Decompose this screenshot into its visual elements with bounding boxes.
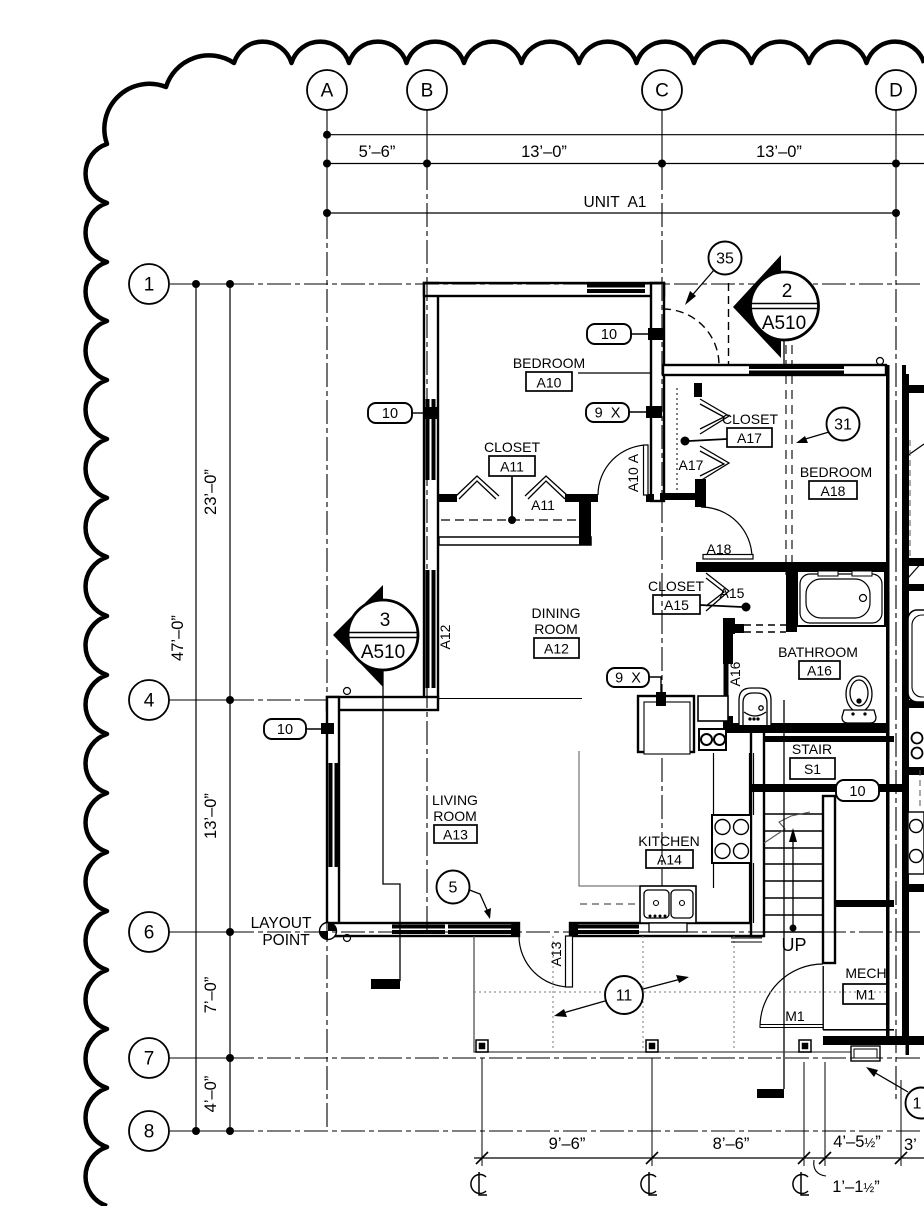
closet shelf lines [441, 388, 677, 520]
toilet A16 [842, 676, 876, 723]
svg-text:POINT: POINT [262, 932, 310, 949]
callout 31 [796, 408, 860, 444]
keynote 10 west living [264, 719, 306, 739]
wall: bathroom west upper [723, 633, 733, 664]
svg-text:MECH: MECH [845, 965, 886, 981]
window: kitchen south [575, 925, 639, 929]
party wall west line [886, 365, 890, 1036]
window: bedroom A10 west [426, 399, 430, 480]
wall: south exterior east of door A13 [570, 923, 763, 936]
svg-text:1: 1 [913, 1096, 922, 1113]
svg-text:2: 2 [782, 281, 793, 302]
svg-text:47’–0”: 47’–0” [169, 615, 187, 661]
closet A15 bifold door [706, 573, 729, 611]
wall: closet A17 north jamb [694, 383, 702, 397]
stair break line [764, 812, 810, 843]
wall: stair north [764, 736, 894, 742]
svg-text:9 X: 9 X [595, 406, 621, 422]
walls [320, 283, 910, 1098]
centerline symbol 1 [471, 1172, 487, 1195]
svg-text:A12: A12 [437, 624, 453, 649]
svg-text:23’–0”: 23’–0” [202, 469, 220, 515]
wall: south exterior west of door A13 [327, 923, 519, 936]
section 2 cut line solid [783, 700, 785, 1089]
svg-text:BEDROOM: BEDROOM [513, 355, 585, 371]
window: living west [329, 763, 333, 867]
patio column 3 [799, 1040, 811, 1052]
lavatory A16 [739, 688, 771, 725]
svg-text:A18: A18 [821, 483, 846, 499]
bottom dimension line [474, 1157, 924, 1159]
bubble 8 [129, 1111, 169, 1151]
room box A10 [526, 372, 572, 391]
svg-text:M1: M1 [785, 1008, 805, 1024]
svg-text:A11: A11 [531, 497, 555, 513]
closet A11 bifold doors [456, 399, 729, 611]
svg-text:1: 1 [144, 275, 155, 296]
wall: closet A15 east [786, 562, 797, 632]
callout 5 [437, 871, 492, 920]
svg-text:A510: A510 [762, 313, 806, 334]
svg-text:A10 A: A10 A [625, 453, 641, 492]
bubble 1 [129, 264, 169, 304]
keynotes [264, 324, 879, 801]
room box A14 [646, 850, 693, 868]
door A10A swing [598, 445, 648, 495]
room box A16 [799, 661, 840, 679]
bubble D [876, 70, 916, 110]
svg-text:10: 10 [601, 327, 617, 343]
svg-text:DINING: DINING [532, 605, 581, 621]
svg-text:ROOM: ROOM [433, 808, 477, 824]
bubble 7 [129, 1038, 169, 1078]
callout 11 [554, 975, 689, 1017]
svg-text:5: 5 [449, 880, 458, 897]
grid line D vertical [895, 110, 897, 215]
svg-text:1’–1½”: 1’–1½” [832, 1178, 880, 1196]
window: dining west [426, 570, 430, 688]
pantry cabinet [698, 696, 728, 721]
wall: north living room [327, 697, 438, 710]
patio column 2 [646, 1040, 658, 1052]
grid line 4 horizontal [169, 699, 230, 701]
small circle top wall [344, 688, 351, 695]
svg-text:A18: A18 [707, 541, 732, 557]
keynote 10 bedroom A10 [587, 324, 631, 344]
svg-text:C: C [655, 81, 669, 102]
wall: A17/A18 jamb [695, 479, 706, 507]
svg-text:S1: S1 [804, 761, 821, 777]
keynote 10 stair [836, 780, 879, 801]
grid lines [169, 110, 924, 1131]
windows [329, 284, 845, 935]
svg-text:8: 8 [144, 1122, 155, 1143]
leader A11 [511, 476, 513, 517]
svg-text:10: 10 [849, 784, 865, 800]
keynote 10 west bedroom [368, 403, 412, 423]
wall: west exterior bedroom/dining [424, 283, 438, 699]
svg-text:UNIT A1: UNIT A1 [584, 194, 647, 211]
wall: stair mid keynote10 [751, 784, 906, 792]
dimension dots top [323, 131, 900, 217]
wall: bathroom south [729, 723, 886, 733]
svg-text:M1: M1 [856, 987, 876, 1003]
mech vent [851, 1046, 880, 1061]
svg-text:A13: A13 [443, 827, 468, 843]
doors [519, 283, 823, 1028]
svg-text:5’–6”: 5’–6” [359, 143, 396, 161]
door A18 swing [701, 507, 752, 558]
leader A15 [700, 605, 742, 607]
refrigerator [638, 696, 694, 754]
bubble 6 [129, 912, 169, 952]
adjacent unit stove [908, 812, 924, 874]
callout 35 [685, 242, 742, 306]
closet A17 bifold doors [700, 399, 729, 434]
party wall east line [902, 365, 906, 1036]
wall: closet A11 east [579, 494, 591, 545]
svg-text:CLOSET: CLOSET [484, 439, 540, 455]
room box A17 [727, 428, 772, 447]
callouts [333, 242, 924, 1119]
grid line 1 horizontal [170, 283, 230, 285]
window: bedroom A18 north [749, 366, 844, 370]
left dimension line inner [229, 284, 231, 1131]
svg-text:A16: A16 [807, 663, 832, 679]
svg-text:13’–0”: 13’–0” [521, 143, 567, 161]
wall: bathroom west lower [723, 716, 733, 733]
grid line 8 horizontal [170, 1130, 230, 1132]
leader for 1'-1 1/2" [814, 1160, 826, 1176]
kitchen counter east edge [714, 753, 754, 923]
stair up arrow [792, 836, 794, 928]
door A13 jamb caps [511, 923, 519, 936]
section 3 cut line [383, 671, 400, 981]
bathtub A16 [797, 571, 885, 626]
svg-text:3: 3 [380, 610, 391, 631]
svg-text:A14: A14 [657, 852, 682, 868]
svg-text:A15: A15 [664, 597, 689, 613]
dashed closet A15 south opening [744, 625, 786, 632]
kitchen sink [640, 886, 696, 932]
wall: closet A11 east to A10 door [565, 494, 598, 502]
svg-text:A11: A11 [500, 459, 524, 475]
wall: closet A15 south west end [723, 618, 735, 634]
room box A13 [434, 825, 477, 843]
entry threshold lines [731, 937, 762, 939]
entry door dashed swing [663, 309, 719, 365]
dimensions [169, 131, 924, 1196]
section 2 cut line dashed [785, 345, 787, 575]
adjacent unit west wall [906, 374, 910, 1055]
wall: stair center [823, 796, 835, 963]
grid line B vertical [426, 110, 428, 166]
small circle A18 wall [877, 358, 884, 365]
wall: mech south [823, 1036, 909, 1045]
svg-text:A17: A17 [737, 430, 762, 446]
window: living south 1 [392, 925, 445, 929]
adjacent unit washer circles [912, 733, 923, 744]
svg-text:A16: A16 [727, 661, 743, 686]
grid line 7 horizontal [169, 1057, 230, 1059]
alcove edge line in A10 [578, 372, 651, 374]
svg-text:6: 6 [144, 923, 155, 944]
room box S1 [790, 758, 835, 779]
svg-text:10: 10 [382, 406, 398, 422]
callout 1x partial [866, 1067, 924, 1119]
layout point symbol [320, 923, 351, 942]
bottom extension lines [482, 1058, 901, 1166]
svg-text:A: A [321, 81, 334, 102]
svg-text:35: 35 [716, 251, 734, 268]
svg-text:LAYOUT: LAYOUT [251, 915, 312, 932]
patio outline [474, 936, 852, 1052]
door M1 swing [760, 964, 823, 1027]
cooktop range [712, 815, 751, 863]
centerline symbol 3 [793, 1172, 809, 1195]
stair treads [764, 814, 823, 932]
wall: west exterior living room [327, 697, 339, 936]
adjacent unit bathtub [908, 610, 924, 702]
svg-text:31: 31 [834, 417, 852, 434]
svg-text:A10: A10 [537, 375, 562, 391]
room box A15 [653, 595, 700, 614]
svg-text:ROOM: ROOM [534, 621, 578, 637]
grid line A vertical [326, 110, 328, 215]
bubble C [642, 70, 682, 110]
wall: mech north [835, 900, 894, 907]
svg-text:A12: A12 [544, 641, 569, 657]
window: living south 2 [448, 925, 516, 929]
svg-text:A13: A13 [548, 941, 564, 966]
svg-text:A17: A17 [679, 457, 704, 473]
dimension dots left [192, 280, 234, 1135]
kitchen floor edge [579, 751, 639, 886]
centerline symbol 2 [641, 1172, 657, 1195]
left dimension line outer [195, 284, 197, 1131]
top dimension line 3 UNIT A1 [327, 212, 896, 214]
room box A12 [534, 638, 579, 658]
svg-text:D: D [889, 81, 903, 102]
svg-text:4’–0”: 4’–0” [202, 1076, 220, 1113]
adjacent unit door diagonal [908, 560, 924, 578]
svg-text:9’–6”: 9’–6” [549, 1135, 586, 1153]
door A16 panel [724, 664, 729, 716]
laundry box two circles [699, 729, 726, 750]
fixtures [638, 374, 924, 1055]
svg-text:8’–6”: 8’–6” [713, 1135, 750, 1153]
window: bedroom A10 north [587, 284, 645, 288]
grid line C vertical [661, 110, 663, 166]
wall: closet A17 south [660, 493, 702, 500]
wall: closet A11 west jamb [439, 494, 457, 502]
section marker 3/A510 [333, 585, 418, 687]
room box M1 [843, 984, 887, 1004]
svg-text:10: 10 [277, 722, 293, 738]
svg-text:3’: 3’ [904, 1136, 917, 1154]
adjacent unit wall stubs [906, 385, 924, 1045]
svg-text:CLOSET: CLOSET [722, 411, 778, 427]
adjacent unit dashes [919, 770, 921, 808]
top dimension line 1 [327, 134, 924, 136]
svg-text:4’–5½”: 4’–5½” [833, 1133, 881, 1151]
keynote 9X kitchen [607, 668, 649, 687]
kitchen upper cabinet dashed [580, 903, 639, 905]
bubble 4 [129, 680, 169, 720]
svg-text:BATHROOM: BATHROOM [778, 644, 858, 660]
svg-text:B: B [421, 81, 434, 102]
svg-text:BEDROOM: BEDROOM [800, 464, 872, 480]
keynote 9X bedroom A10 [586, 403, 629, 422]
section marker 2/A510 [733, 255, 819, 367]
svg-text:A15: A15 [720, 585, 745, 601]
grid line 6 horizontal [169, 931, 230, 933]
svg-text:9 X: 9 X [615, 671, 641, 687]
svg-text:UP: UP [781, 935, 806, 955]
svg-text:11: 11 [616, 988, 633, 1005]
bubble B [407, 70, 447, 110]
bubble A [307, 70, 347, 110]
wall: east bedroom A10 [651, 283, 664, 501]
svg-text:CLOSET: CLOSET [648, 578, 704, 594]
wall: closet A11 south [439, 537, 591, 545]
wall: bedroom A18 south [696, 562, 886, 572]
svg-text:4: 4 [144, 691, 155, 712]
svg-text:LIVING: LIVING [432, 792, 478, 808]
svg-text:13’–0”: 13’–0” [756, 143, 802, 161]
room box A18 [809, 481, 857, 499]
patio column 1 [476, 1040, 811, 1052]
bottom tick marks [476, 1152, 907, 1164]
svg-text:KITCHEN: KITCHEN [638, 833, 699, 849]
wall: north exterior bedroom A18 [663, 365, 886, 375]
wall: door A10A east jamb [646, 494, 654, 502]
svg-text:7’–0”: 7’–0” [202, 977, 220, 1014]
svg-text:STAIR: STAIR [792, 741, 832, 757]
door A13 swing [519, 936, 570, 987]
patio dotted joints [474, 936, 886, 1051]
top dimension line 2 [327, 163, 924, 165]
wall: stair hall west [751, 729, 764, 936]
svg-text:A510: A510 [361, 642, 405, 663]
svg-text:7: 7 [144, 1049, 155, 1070]
leader A17 [689, 439, 727, 441]
svg-text:13’–0”: 13’–0” [202, 793, 220, 839]
room box A11 [489, 456, 535, 476]
wall: north exterior bedroom A10 [424, 283, 664, 296]
grid bubbles [129, 70, 916, 1151]
